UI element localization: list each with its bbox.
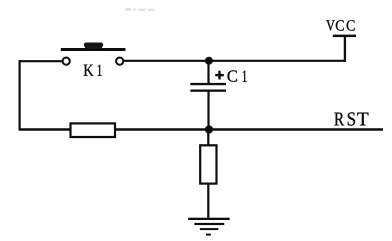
capacitor C1 bottom plate [190, 90, 226, 92]
capacitor C1 bottom lead [207, 92, 209, 130]
label C1 [228, 70, 247, 81]
wire: left vertical [19, 60, 21, 129]
switch K1 right terminal [116, 58, 123, 65]
node: top junction [205, 57, 213, 65]
faint watermark marks top [126, 8, 155, 11]
label K1 [84, 65, 102, 76]
wire: left lead to switch [19, 60, 63, 62]
wire: resistor to ground [207, 184, 209, 219]
power VCC bar [333, 35, 356, 38]
power VCC label [326, 20, 354, 31]
resistor (vertical) [200, 145, 216, 183]
wire: switch right terminal to VCC corner [124, 60, 347, 62]
wire: RST left segment [19, 128, 71, 130]
capacitor C1 plus sign [215, 71, 224, 80]
ground [188, 218, 230, 236]
label RST [334, 112, 368, 125]
capacitor C1 top plate [190, 83, 226, 85]
wire: junction to resistor [207, 130, 209, 146]
switch K1 actuator bar [61, 48, 126, 51]
switch K1 left terminal [63, 58, 70, 65]
wire: RST line [115, 128, 383, 130]
resistor (horizontal) [71, 123, 116, 137]
capacitor C1 top lead [207, 61, 209, 84]
node: RST junction [205, 125, 213, 133]
switch K1 button cap [84, 43, 103, 49]
wire: VCC vertical drop [344, 37, 346, 62]
